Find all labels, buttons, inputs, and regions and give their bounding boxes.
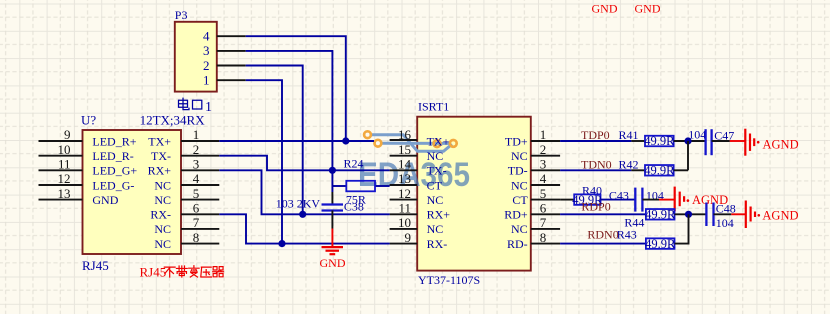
svg-text:RDP0: RDP0 xyxy=(581,199,610,213)
svg-text:6: 6 xyxy=(540,201,547,216)
svg-text:NC: NC xyxy=(511,149,528,163)
svg-text:8: 8 xyxy=(193,230,200,245)
svg-text:12: 12 xyxy=(58,171,71,186)
junction R44/R43/C48 node xyxy=(685,211,692,218)
wire P3 pin3 down to TX- junction and C38 xyxy=(246,51,333,192)
highlight ring 2 xyxy=(375,140,382,147)
svg-text:NC: NC xyxy=(154,237,171,251)
resistor R40 body with value 49.9R xyxy=(574,194,600,205)
svg-text:4: 4 xyxy=(540,171,547,186)
wire C43 to AGND xyxy=(642,199,659,201)
svg-text:104: 104 xyxy=(688,127,706,141)
svg-text:10: 10 xyxy=(58,142,71,157)
svg-text:LED_G+: LED_G+ xyxy=(92,164,137,178)
wire ISRT1 pin1 to R41 xyxy=(560,140,631,142)
junction TX+ / P3 pin4 xyxy=(342,137,349,144)
capacitor C48 plates xyxy=(705,203,707,227)
svg-text:GND: GND xyxy=(635,1,661,15)
svg-text:103 2KV: 103 2KV xyxy=(276,197,321,211)
ISRT1 pin 15 stub xyxy=(390,155,418,157)
svg-text:RX-: RX- xyxy=(150,208,171,222)
ISRT1 pin 1 stub xyxy=(531,140,560,142)
svg-text:AGND: AGND xyxy=(762,208,798,222)
resistor R24 body xyxy=(346,181,375,192)
svg-text:CT: CT xyxy=(427,178,443,192)
wire ISRT1 pin3 to R42 xyxy=(560,169,631,171)
svg-text:R43: R43 xyxy=(617,228,637,242)
RJ45 pin 2 stub xyxy=(181,155,219,157)
wire TX- net RJ45 pin2 to ISRT1 pin14 xyxy=(219,156,389,171)
wire R24 left lead xyxy=(332,185,346,187)
svg-text:13: 13 xyxy=(58,186,71,201)
capacitor C47 plates xyxy=(704,129,706,155)
wire C38 bottom lead xyxy=(331,211,333,229)
svg-text:12: 12 xyxy=(398,186,411,201)
net highlight polyline ring1 to ring4 xyxy=(372,135,453,152)
P3 pin 1 stub xyxy=(217,79,246,81)
svg-text:AGND: AGND xyxy=(763,137,799,151)
svg-text:C48: C48 xyxy=(716,201,736,215)
ISRT1 pin 12 stub xyxy=(390,199,418,201)
RJ45 pin 4 stub xyxy=(181,184,219,186)
svg-text:RD-: RD- xyxy=(507,237,528,251)
ISRT1 pin 11 stub xyxy=(390,213,418,215)
svg-text:6: 6 xyxy=(193,201,200,216)
wire R24 right lead to ISRT1 pin13 xyxy=(375,185,390,187)
P3 pin 2 stub xyxy=(217,65,246,67)
svg-text:1: 1 xyxy=(540,127,547,142)
power port AGND at C43 xyxy=(674,187,676,212)
RJ45 pin 3 stub xyxy=(181,169,219,171)
capacitor C43 plates xyxy=(634,188,636,212)
svg-text:8: 8 xyxy=(540,230,547,245)
svg-text:NC: NC xyxy=(427,222,444,236)
RJ45 pin 9 stub xyxy=(39,140,83,142)
ISRT1 pin 7 stub xyxy=(531,228,560,230)
wire P3 pin1 down to RX- junction xyxy=(246,80,282,243)
wire ISRT1 pin8 to R43 xyxy=(560,243,646,245)
svg-text:TDP0: TDP0 xyxy=(581,128,610,142)
svg-text:104: 104 xyxy=(716,216,734,230)
wire R40 to C43 xyxy=(601,199,636,201)
RJ45 pin 6 stub xyxy=(181,213,219,215)
P3 pin 3 stub xyxy=(217,50,246,52)
ISRT1 pin 10 stub xyxy=(390,228,418,230)
wire C47 to AGND xyxy=(712,140,730,142)
svg-text:TD-: TD- xyxy=(508,164,528,178)
svg-text:R24: R24 xyxy=(344,157,364,171)
svg-text:LED_R-: LED_R- xyxy=(92,149,133,163)
ISRT1 pin 4 stub xyxy=(531,184,560,186)
ground GND symbol bars xyxy=(322,246,344,248)
junction RX+ / P3 pin2 xyxy=(299,211,306,218)
ISRT1 pin 9 stub xyxy=(390,243,418,245)
wire RX- net RJ45 pin6 to ISRT1 pin9 xyxy=(219,214,389,243)
svg-text:RD+: RD+ xyxy=(504,208,528,222)
svg-text:R41: R41 xyxy=(619,128,639,142)
junction R41/R42/C47 node xyxy=(684,137,691,144)
wire junction down to R42 xyxy=(687,141,689,170)
capacitor C38 plates xyxy=(322,203,344,205)
svg-text:10: 10 xyxy=(398,215,411,230)
svg-text:RJ45: RJ45 xyxy=(140,264,167,279)
svg-text:49.9R: 49.9R xyxy=(644,134,675,148)
ISRT1 pin 8 stub xyxy=(531,243,560,245)
svg-text:7: 7 xyxy=(540,215,547,230)
svg-text:RJ45: RJ45 xyxy=(82,258,109,273)
wire RX+ net RJ45 pin3 to ISRT1 pin11 xyxy=(219,170,389,214)
RJ45 pin 5 stub xyxy=(181,199,219,201)
svg-text:2: 2 xyxy=(203,58,210,73)
RJ45 pin 13 stub xyxy=(39,199,83,201)
highlight ring 4 xyxy=(450,140,457,147)
svg-text:11: 11 xyxy=(398,201,411,216)
svg-text:14: 14 xyxy=(398,157,412,172)
RJ45 pin 7 stub xyxy=(181,228,219,230)
svg-text:YT37-1107S: YT37-1107S xyxy=(418,273,480,287)
svg-text:TX+: TX+ xyxy=(148,134,171,148)
svg-text:49.9R: 49.9R xyxy=(645,208,676,222)
RJ45 pin 10 stub xyxy=(39,155,83,157)
svg-text:GND: GND xyxy=(92,193,118,207)
ground GND power port pin xyxy=(331,229,333,247)
wire ISRT1 pin6 to R44 xyxy=(560,213,646,215)
component U? RJ45 body xyxy=(83,130,182,254)
svg-text:C38: C38 xyxy=(344,200,364,214)
svg-text:TX+: TX+ xyxy=(427,134,450,148)
svg-text:5: 5 xyxy=(193,186,200,201)
svg-text:12TX;34RX: 12TX;34RX xyxy=(140,112,206,127)
connector P3 body xyxy=(175,22,217,92)
svg-text:3: 3 xyxy=(540,157,547,172)
highlight ring 1 xyxy=(364,131,371,138)
junction TX- / P3 pin3 xyxy=(329,167,336,174)
svg-text:7: 7 xyxy=(193,215,200,230)
wire P3 pin2 down to RX+ junction xyxy=(246,66,303,215)
svg-text:C43: C43 xyxy=(609,188,629,202)
svg-text:TDN0: TDN0 xyxy=(581,158,612,172)
svg-text:RDN0: RDN0 xyxy=(587,228,618,242)
ISRT1 pin 2 stub xyxy=(531,155,560,157)
svg-text:1: 1 xyxy=(193,127,200,142)
svg-text:2: 2 xyxy=(193,142,200,157)
wire R41 to C47 with junction xyxy=(674,140,705,142)
junction RX- / P3 pin1 xyxy=(278,240,285,247)
net highlight segment ring2 to TX+ xyxy=(382,142,450,145)
svg-text:P3: P3 xyxy=(175,8,188,22)
svg-text:4: 4 xyxy=(193,171,200,186)
ISRT1 pin 6 stub xyxy=(531,213,560,215)
svg-text:2: 2 xyxy=(540,142,547,157)
power port AGND at C47 xyxy=(744,129,746,156)
wire TX+ net RJ45 pin1 to highlight node xyxy=(219,140,374,142)
resistor R43 body with value 49.9R xyxy=(646,238,675,249)
svg-text:NC: NC xyxy=(154,178,171,192)
svg-text:16: 16 xyxy=(398,127,412,142)
ISRT1 pin 13 stub xyxy=(390,184,418,186)
svg-text:9: 9 xyxy=(405,230,412,245)
wire R44 to C48 with junction xyxy=(675,213,707,215)
resistor R44 body with value 49.9R xyxy=(646,209,675,220)
wire C48 to AGND xyxy=(714,213,732,215)
svg-text:1: 1 xyxy=(205,100,212,115)
svg-text:RX-: RX- xyxy=(427,237,448,251)
resistor R41 body with value 49.9R xyxy=(645,136,674,147)
svg-text:LED_R+: LED_R+ xyxy=(92,134,136,148)
svg-text:NC: NC xyxy=(154,193,171,207)
svg-text:NC: NC xyxy=(427,149,444,163)
RJ45 pin 1 stub xyxy=(181,140,219,142)
power port AGND at C48 xyxy=(745,201,747,229)
svg-text:4: 4 xyxy=(203,29,210,44)
svg-text:TX-: TX- xyxy=(151,149,171,163)
resistor R42 body with value 49.9R xyxy=(645,165,674,176)
wire R42 right lead to junction column xyxy=(674,169,688,171)
svg-text:49.9R: 49.9R xyxy=(645,237,676,251)
svg-text:R42: R42 xyxy=(619,158,639,172)
wire ISRT1 pin5 to R40 xyxy=(560,199,574,201)
P3 pin 4 stub xyxy=(217,35,246,37)
svg-text:RX+: RX+ xyxy=(427,208,451,222)
transformer ISRT1 body xyxy=(417,117,531,271)
svg-text:LED_G-: LED_G- xyxy=(92,178,134,192)
svg-text:NC: NC xyxy=(427,193,444,207)
svg-text:13: 13 xyxy=(398,171,411,186)
svg-text:ISRT1: ISRT1 xyxy=(418,100,449,114)
svg-text:1: 1 xyxy=(203,73,210,88)
ISRT1 pin 14 stub xyxy=(390,169,418,171)
svg-text:GND: GND xyxy=(592,1,618,15)
RJ45 pin 8 stub xyxy=(181,243,219,245)
svg-text:11: 11 xyxy=(58,157,71,172)
RJ45 pin 12 stub xyxy=(39,184,83,186)
ISRT1 pin 5 stub xyxy=(531,199,560,201)
highlight ring 3 xyxy=(434,140,441,147)
svg-text:U?: U? xyxy=(81,112,96,127)
wire R43 up to junction xyxy=(675,214,689,243)
svg-text:NC: NC xyxy=(511,178,528,192)
svg-text:15: 15 xyxy=(398,142,411,157)
svg-text:NC: NC xyxy=(511,222,528,236)
svg-text:3: 3 xyxy=(203,43,210,58)
svg-text:49.9R: 49.9R xyxy=(644,164,675,178)
svg-text:RX+: RX+ xyxy=(148,164,172,178)
svg-text:3: 3 xyxy=(193,157,200,172)
svg-text:5: 5 xyxy=(540,186,547,201)
ISRT1 pin 3 stub xyxy=(531,169,560,171)
svg-text:GND: GND xyxy=(320,256,346,270)
P3 net label dian kou 1 (Chinese) xyxy=(179,98,213,115)
svg-text:TD+: TD+ xyxy=(505,134,528,148)
svg-text:9: 9 xyxy=(64,127,71,142)
RJ45 caption Chinese: no-transformer xyxy=(164,266,223,277)
wire P3 pin4 to TX+ junction xyxy=(246,36,346,141)
ISRT1 pin 16 stub xyxy=(390,139,418,141)
svg-text:TX-: TX- xyxy=(427,164,447,178)
svg-text:CT: CT xyxy=(512,193,528,207)
svg-text:NC: NC xyxy=(154,222,171,236)
RJ45 pin 11 stub xyxy=(39,169,83,171)
